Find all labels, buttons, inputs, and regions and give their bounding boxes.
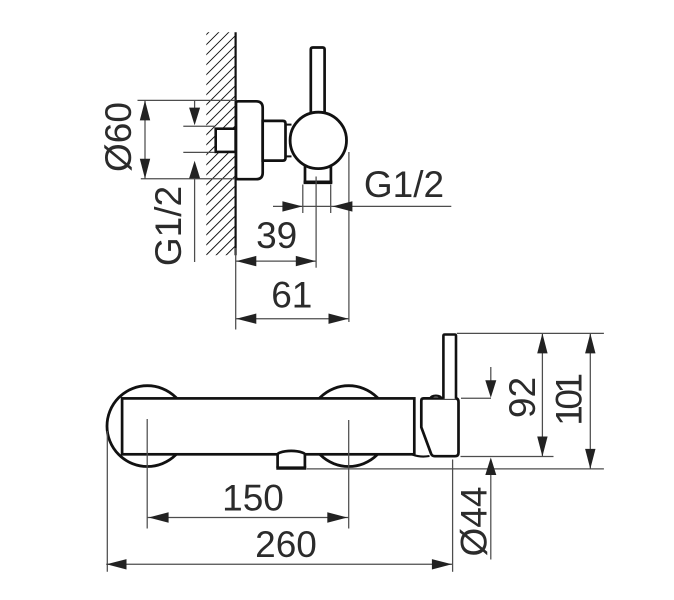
- dimension 92: [541, 333, 543, 456]
- inlet connector G1/2 (side view): [216, 129, 236, 152]
- right escutcheon circle (front view): [308, 386, 389, 467]
- neck connector lines: [286, 124, 292, 126]
- extension line valve bottom: [461, 456, 554, 458]
- outlet spout (side view): [305, 164, 331, 182]
- svg-text:G1/2: G1/2: [364, 164, 444, 205]
- svg-text:101: 101: [549, 375, 590, 426]
- extension line flange bottom: [141, 178, 236, 180]
- svg-text:150: 150: [222, 477, 284, 518]
- wall face line: [235, 32, 237, 255]
- handle rod (side view): [311, 48, 325, 114]
- wall face extension line: [235, 248, 237, 330]
- dimension 150: [147, 517, 349, 519]
- G1/2 left lower arrow and leader: [194, 179, 196, 262]
- mixer body circle (side view): [290, 112, 346, 168]
- mixer body bar (front view): [122, 398, 414, 454]
- svg-text:260: 260: [255, 524, 317, 565]
- cone transition arc: [413, 455, 430, 457]
- svg-text:61: 61: [271, 275, 312, 316]
- extension line 260 left: [106, 431, 108, 572]
- svg-text:G1/2: G1/2: [148, 186, 189, 266]
- dimension 39: [236, 260, 316, 262]
- aerator spout bump (front view): [278, 451, 305, 468]
- extension line valve top: [461, 397, 491, 399]
- centreline right circle: [348, 420, 350, 529]
- centreline left circle: [146, 419, 148, 529]
- wall hatching: [206, 32, 235, 255]
- dimension G1/2 outlet line: [273, 205, 451, 207]
- svg-text:92: 92: [502, 377, 543, 418]
- extension line flange top: [138, 99, 236, 101]
- dimension Ø60 arrow line: [144, 100, 146, 178]
- extension line outlet left: [302, 185, 304, 214]
- body step cylinder (side view): [263, 121, 286, 161]
- dimension 61: [236, 318, 349, 320]
- dimension Ø44 lower arrow: [490, 474, 492, 560]
- extension line rod top: [457, 332, 604, 334]
- escutcheon flange (side view): [236, 101, 263, 179]
- valve body (front view): [421, 398, 458, 456]
- extension line inlet bottom: [183, 151, 214, 153]
- svg-text:Ø60: Ø60: [98, 102, 139, 172]
- dimension 260: [106, 563, 452, 565]
- extension line outlet centre: [315, 177, 317, 268]
- extension line outlet right: [330, 185, 332, 214]
- left escutcheon circle (front view): [107, 386, 188, 467]
- dimension 101: [589, 333, 591, 469]
- handle rod (front view): [443, 335, 456, 399]
- extension line body right: [348, 152, 350, 322]
- G1/2 left upper arrow: [194, 100, 196, 109]
- extension line inlet top: [183, 125, 214, 127]
- svg-text:Ø44: Ø44: [454, 487, 495, 557]
- svg-text:39: 39: [256, 215, 297, 256]
- extension line bump bottom: [307, 468, 604, 470]
- handle base dome (front view): [431, 396, 442, 399]
- dimension Ø44 upper arrow: [490, 367, 492, 382]
- extension line 260 right: [452, 460, 454, 572]
